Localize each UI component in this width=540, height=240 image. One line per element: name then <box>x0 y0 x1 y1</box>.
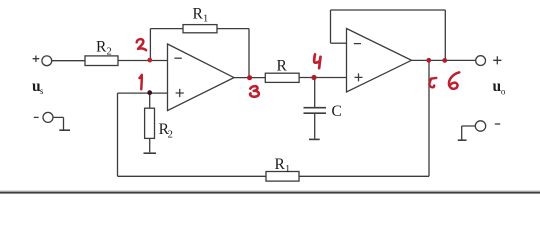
node 2 junction dot <box>147 58 152 63</box>
output minus stub wire <box>462 126 476 140</box>
svg-text:R: R <box>96 39 107 56</box>
U2 feedback loop left vertical <box>330 10 332 43</box>
wire U2 output to output terminal <box>412 59 476 61</box>
output minus stub bar <box>458 139 467 141</box>
bottom feedback wire left segment <box>118 175 267 177</box>
R1 feedback top wire left segment <box>150 28 183 30</box>
resistor R2 (vertical to ground) <box>145 108 155 138</box>
svg-text:o: o <box>501 86 506 96</box>
input terminal circle + <box>42 56 52 66</box>
svg-text:R: R <box>275 156 286 173</box>
bottom divider light line <box>0 190 540 191</box>
wire node 5 down to bottom R1 feedback <box>428 60 430 176</box>
wire down from R1 to node 3 <box>248 29 250 78</box>
wire node 1 to op-amp U1 plus input <box>118 92 168 94</box>
resistor R1 (bottom feedback) <box>266 172 299 182</box>
output terminal plus sign <box>493 56 501 64</box>
label R2 (vertical resistor) <box>159 121 173 140</box>
resistor R2 (horizontal input) <box>85 56 118 66</box>
wire node 2 up to R1 feedback <box>149 29 151 61</box>
input terminal plus sign <box>33 56 40 63</box>
svg-text:1: 1 <box>285 164 290 175</box>
capacitor C bottom lead <box>314 114 316 139</box>
R2 vertical bottom lead <box>149 138 151 152</box>
handwritten red label 6 <box>449 72 459 88</box>
label u_s (input voltage) <box>32 78 44 96</box>
input minus stub wire <box>53 117 64 129</box>
node 3 junction dot <box>247 75 252 80</box>
input minus stub bar <box>59 129 70 131</box>
label u_o (output voltage) <box>493 78 506 96</box>
wire R2 to node 2 and op-amp U1 minus input <box>118 60 168 62</box>
ground stub below C <box>309 138 320 140</box>
handwritten red label 1 <box>140 75 142 89</box>
output terminal circle - <box>475 121 485 131</box>
input terminal circle - <box>43 112 53 122</box>
U2 feedback loop top wire <box>331 9 446 11</box>
op-amp U1 <box>168 44 235 111</box>
wire U2 minus input <box>331 42 347 44</box>
ground stub below R2 <box>144 152 157 154</box>
node 5 junction dot <box>426 58 431 63</box>
label R2 (input resistor) <box>96 39 112 58</box>
resistor R (middle) <box>265 73 299 82</box>
handwritten red label 5 <box>429 78 436 87</box>
op-amp U2 plus marker <box>355 73 363 81</box>
label R1 (top feedback resistor) <box>193 5 209 24</box>
R1 feedback top wire right segment <box>217 28 249 30</box>
op-amp U2 minus marker <box>354 43 361 45</box>
svg-text:R: R <box>193 5 204 22</box>
op-amp U2 <box>347 29 412 93</box>
svg-text:2: 2 <box>168 129 173 140</box>
handwritten red label 4 <box>314 54 320 68</box>
svg-text:2: 2 <box>107 47 112 58</box>
node 6 junction dot <box>442 58 447 63</box>
handwritten red label 2 <box>137 39 146 50</box>
wire input to R2 <box>52 60 85 62</box>
wire up from bottom feedback to node 1 <box>117 93 119 176</box>
bottom divider dark line <box>0 192 540 194</box>
capacitor C top lead <box>314 78 316 108</box>
R2 vertical top lead <box>149 93 151 108</box>
svg-text:C: C <box>332 103 342 120</box>
op-amp U1 plus marker <box>176 89 184 97</box>
output terminal circle + <box>476 56 486 66</box>
svg-text:s: s <box>40 86 44 96</box>
input terminal minus sign <box>34 116 39 118</box>
capacitor C plates <box>304 108 327 114</box>
output terminal minus sign <box>495 123 500 125</box>
resistor R1 (top feedback) <box>183 25 217 33</box>
op-amp U1 minus marker <box>174 57 181 59</box>
U2 feedback loop right vertical down to node 6 <box>444 10 446 60</box>
bottom feedback wire right segment <box>299 175 429 177</box>
label R1 (bottom feedback resistor) <box>275 156 291 175</box>
handwritten red label 3 <box>250 86 259 97</box>
svg-text:R: R <box>277 57 288 74</box>
node 4 junction dot <box>311 75 316 80</box>
node 1 junction dot <box>147 90 152 95</box>
wire R to node 4 and op-amp U2 plus input <box>299 77 346 79</box>
wire U1 output to node 3 <box>234 77 265 79</box>
svg-text:1: 1 <box>203 13 208 24</box>
